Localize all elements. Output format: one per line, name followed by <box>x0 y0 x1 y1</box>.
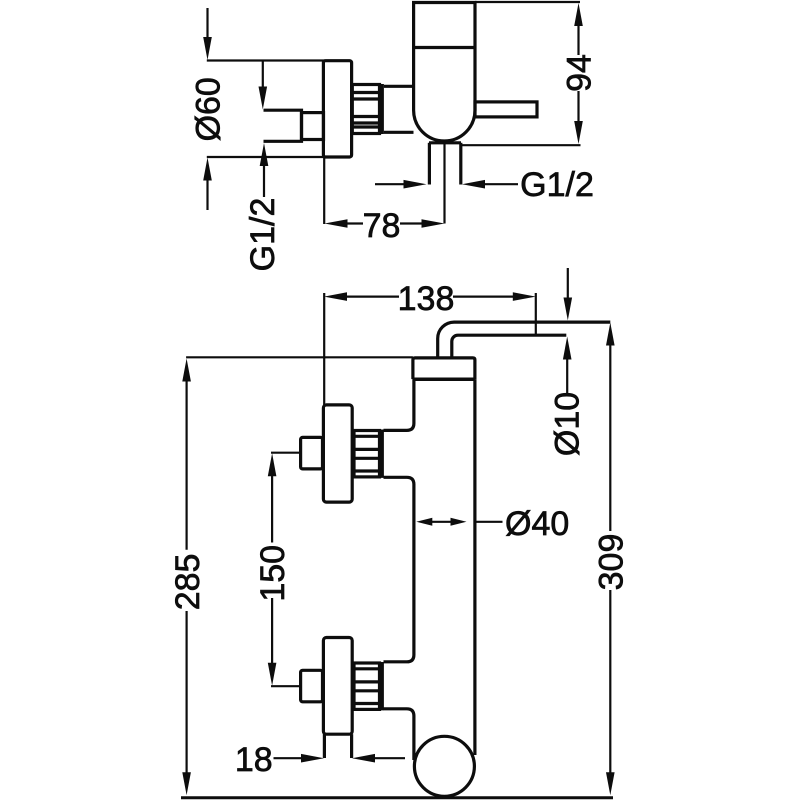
wire: 150 top extension line <box>271 452 301 454</box>
handle knob top <box>301 437 323 469</box>
hose nut ribs side view <box>352 85 379 134</box>
svg-text:Ø40: Ø40 <box>505 505 569 543</box>
svg-text:285: 285 <box>169 554 207 611</box>
body cap front view <box>413 358 475 379</box>
svg-text:G1/2: G1/2 <box>244 198 282 272</box>
wire: 138 right extension <box>535 293 537 336</box>
svg-text:18: 18 <box>235 741 273 779</box>
dimension arrow O10 top <box>564 268 573 321</box>
dimension arrow O60 bottom <box>203 158 212 211</box>
handle nut collar bottom <box>380 662 384 710</box>
hand shower outlet circle <box>414 736 474 796</box>
wire: O60 top extension line <box>207 59 325 61</box>
handle knob bottom <box>301 670 323 702</box>
body cap joint thick line <box>413 378 475 382</box>
handle nut top <box>354 431 380 477</box>
body column left edge with bosses <box>384 379 414 430</box>
shower pipe inner edge <box>452 335 567 358</box>
dimension arrow O60 top <box>203 8 212 60</box>
shower pipe outer edge <box>438 322 611 358</box>
svg-text:Ø10: Ø10 <box>549 392 587 456</box>
dimension 138 line and arrows <box>324 292 536 301</box>
dimension 78 line and arrows <box>325 219 445 228</box>
svg-text:138: 138 <box>398 280 455 318</box>
outlet shoulder line <box>429 141 461 144</box>
wire: 138 left extension <box>323 293 325 405</box>
svg-text:78: 78 <box>363 207 401 245</box>
wall plate side view <box>323 61 351 157</box>
body upper boss bottom edge <box>384 477 414 662</box>
dimension arrow O10 bottom <box>563 337 572 395</box>
connector cylinder <box>384 86 414 132</box>
svg-text:G1/2: G1/2 <box>520 166 594 204</box>
wall flange bottom <box>323 638 352 735</box>
body lower boss bottom edge <box>384 709 414 760</box>
svg-text:150: 150 <box>254 545 292 602</box>
outlet tube left edge <box>428 143 431 185</box>
dimension arrow G1/2 inlet bottom <box>260 143 269 197</box>
dimension 309 line and arrows <box>606 323 615 796</box>
outlet center line <box>443 143 445 224</box>
handle nut bottom <box>354 663 380 709</box>
wall flange top <box>323 405 352 502</box>
body column right edge <box>473 379 476 755</box>
body cap joint line <box>414 46 475 49</box>
svg-text:94: 94 <box>561 54 599 92</box>
wall flange bottom stem left edge <box>323 734 326 758</box>
wire: bottom border line <box>181 796 613 799</box>
wire: 78 extension line <box>323 158 325 224</box>
handle nut collar top <box>380 430 384 478</box>
dimension 285 line and arrows <box>182 359 191 796</box>
wire: 94 top extension line <box>475 1 580 3</box>
wall flange bottom stem right edge <box>350 734 353 758</box>
dimension arrow G1/2 inlet top <box>259 61 268 110</box>
dimension arrow G1/2 outlet right <box>462 180 518 189</box>
svg-text:309: 309 <box>593 534 631 591</box>
dimension O40 double arrow <box>416 518 466 526</box>
lever handle <box>475 102 537 117</box>
dimension 94 line and arrows <box>574 3 583 144</box>
wall inlet nipple outer <box>264 110 302 141</box>
wire: O60 bottom extension line <box>207 156 325 158</box>
dimension 150 line and arrows <box>268 453 277 686</box>
mixer body capsule <box>414 3 475 142</box>
wire: 285 top extension line <box>186 356 413 358</box>
svg-text:Ø60: Ø60 <box>190 77 228 141</box>
leader line O40 <box>475 521 503 523</box>
outlet tube right edge <box>459 143 462 185</box>
dimension arrow G1/2 outlet left <box>375 180 427 189</box>
wire: 150 bottom extension line <box>271 685 301 687</box>
wall inlet nipple inner <box>302 113 324 140</box>
hose nut collar side view <box>380 84 384 134</box>
dimension 18 arrows <box>274 754 406 763</box>
wire: 94 bottom extension line <box>461 144 581 146</box>
